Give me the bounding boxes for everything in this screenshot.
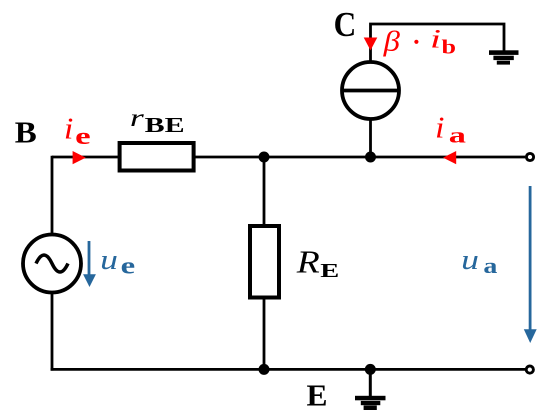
wire: node 1 down to R_E: [263, 157, 266, 226]
svg-text:e: e: [121, 253, 136, 279]
svg-text:e: e: [75, 124, 91, 150]
wire: top rail from B corner to resistor r_BE: [52, 156, 120, 159]
wire: ground stub (bottom): [369, 369, 372, 396]
voltage source u_e (sine source): [23, 235, 81, 293]
svg-text:E: E: [307, 377, 328, 412]
svg-text:β: β: [383, 25, 401, 57]
svg-text:b: b: [442, 36, 457, 58]
junction dot: R_E bottom: [259, 364, 270, 375]
resistor R_E: [250, 226, 279, 298]
junction dot: node 1 (top of R_E): [259, 152, 270, 163]
wire: node 2 to output terminal (top): [371, 156, 526, 159]
svg-text:C: C: [334, 5, 357, 44]
wire: R_E down to bottom rail: [263, 298, 266, 370]
voltage arrow u_e (blue, downward): [88, 241, 91, 276]
junction dot: node 2 (below current source): [365, 152, 376, 163]
ground (bottom, node E): [355, 396, 386, 401]
voltage arrow u_a (blue, downward): [529, 186, 532, 330]
svg-text:E: E: [320, 260, 339, 282]
current arrow beta*i_b (red, pointing down): [364, 38, 378, 51]
svg-text:u: u: [461, 245, 479, 276]
svg-text:R: R: [296, 244, 321, 280]
wire: current source top stub, rail to ground stub: [371, 24, 505, 63]
terminal (open circle, top right): [526, 153, 533, 160]
ground (top right): [489, 50, 519, 55]
resistor r_BE: [120, 143, 194, 171]
svg-text:i: i: [430, 24, 441, 53]
wire: bottom rail: [51, 368, 526, 371]
wire: left rail lower (source down to bottom rail): [51, 293, 54, 371]
wire: node 1 to node 2: [264, 156, 371, 159]
controlled current source (circle with horizontal bar): [342, 62, 399, 119]
wire: left rail upper (B down to source): [51, 156, 54, 235]
current arrow i_e (red, pointing right): [73, 151, 86, 164]
svg-text:B: B: [15, 115, 37, 150]
svg-text:r: r: [130, 105, 144, 132]
svg-text:u: u: [100, 245, 118, 276]
current arrow i_a (red, pointing left): [443, 151, 456, 164]
wire: current source bottom stub: [369, 119, 372, 157]
wire: resistor r_BE to node 1: [194, 156, 264, 159]
svg-text:i: i: [64, 111, 74, 146]
svg-text:a: a: [483, 253, 497, 278]
junction dot: bottom ground node: [365, 364, 376, 375]
svg-text:a: a: [449, 123, 466, 148]
svg-text:i: i: [435, 110, 445, 145]
terminal (open circle, bottom right): [526, 366, 533, 373]
svg-text:BE: BE: [145, 113, 185, 137]
